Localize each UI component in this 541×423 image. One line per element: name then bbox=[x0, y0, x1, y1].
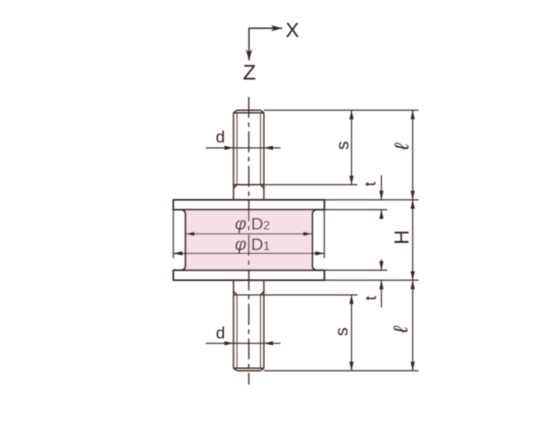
bottom stud outer profile bbox=[233, 280, 235, 368]
svg-text:s: s bbox=[333, 141, 353, 150]
dimension l bottom bbox=[412, 280, 414, 371]
svg-text:H: H bbox=[391, 230, 413, 244]
arrowheads s top bbox=[349, 110, 353, 119]
extension line top plate bottom bbox=[324, 209, 387, 211]
arrowheads d top bbox=[225, 146, 234, 150]
dimension phi D1 bbox=[173, 252, 324, 254]
svg-text:d: d bbox=[216, 325, 225, 343]
dimension l top bbox=[412, 110, 414, 200]
axis arrowhead Z bbox=[246, 50, 252, 61]
arrowheads d bottom bbox=[225, 341, 234, 345]
svg-text:φ: φ bbox=[235, 214, 247, 234]
top stud thread core lines bbox=[236, 113, 238, 185]
dimension d bottom bbox=[206, 342, 281, 344]
bottom stud chamfer flat bbox=[237, 370, 261, 372]
svg-text:ℓ: ℓ bbox=[391, 142, 413, 151]
arrowheads l bottom bbox=[411, 280, 415, 289]
arrowheads phi D2 bbox=[186, 232, 195, 236]
dimension s top bbox=[351, 110, 353, 185]
svg-text:t: t bbox=[363, 295, 380, 300]
rubber right edge bbox=[312, 210, 316, 271]
dimension d top bbox=[206, 147, 281, 149]
bottom stud thread runout bbox=[234, 291, 238, 295]
centerline (vertical dash-dot axis of symmetry) bbox=[248, 97, 250, 385]
extension line stud top bbox=[264, 109, 419, 111]
svg-text:X: X bbox=[285, 19, 299, 42]
arrowheads s bottom bbox=[349, 295, 353, 304]
svg-text:Z: Z bbox=[243, 61, 256, 85]
top stud outer profile bbox=[233, 113, 235, 200]
coordinate axes X / Z bbox=[249, 28, 282, 60]
axis arrowhead X bbox=[271, 25, 282, 31]
rubber body fill (pink elastomer) bbox=[181, 210, 316, 271]
extension line top plate top bbox=[324, 199, 418, 201]
dimension H bbox=[412, 200, 414, 280]
arrowheads phi D1 bbox=[173, 251, 182, 255]
rubber left edge bbox=[181, 210, 185, 271]
extension line top runout bbox=[234, 294, 358, 296]
arrowheads H bbox=[411, 200, 415, 209]
extension line bottom plate bottom bbox=[324, 279, 418, 281]
dimension phi D2 bbox=[186, 233, 313, 235]
dimension t top bbox=[380, 175, 382, 200]
svg-text:ℓ: ℓ bbox=[391, 325, 413, 334]
top stud thread runout bbox=[234, 184, 264, 186]
svg-text:φ: φ bbox=[235, 234, 247, 254]
bottom stud thread core lines bbox=[236, 295, 238, 368]
svg-text:d: d bbox=[216, 129, 225, 147]
svg-text:t: t bbox=[363, 181, 380, 186]
top stud chamfer flat bbox=[237, 109, 261, 111]
arrowheads l top bbox=[411, 110, 415, 119]
arrowheads t top bbox=[379, 191, 383, 200]
extension lines for phi D1 bbox=[172, 210, 174, 259]
svg-text:s: s bbox=[332, 327, 352, 336]
dimension t bottom bbox=[380, 259, 382, 270]
arrowheads t bottom bbox=[379, 261, 383, 270]
dimension s bottom bbox=[351, 295, 353, 371]
bottom plate bbox=[173, 270, 324, 280]
extension line bottom plate top bbox=[324, 269, 387, 271]
top plate bbox=[173, 200, 324, 210]
extension line stud bottom bbox=[264, 370, 419, 372]
